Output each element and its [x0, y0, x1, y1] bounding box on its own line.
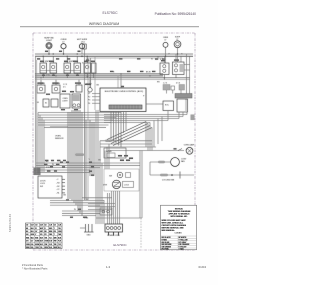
footer page number 1-3: [106, 265, 111, 269]
junction cluster: [34, 168, 41, 176]
svg-text:ELS79DC: ELS79DC: [102, 11, 118, 15]
right switch SW5: [173, 62, 185, 75]
relay module tags: [118, 155, 133, 161]
relay module box: [104, 148, 126, 158]
lower harness labels: [74, 199, 89, 220]
lock switch box: [38, 176, 62, 198]
svg-text:CODES: CODES: [174, 232, 182, 234]
svg-text:OR/B: OR/B: [26, 244, 30, 246]
surface element E2: [52, 83, 60, 93]
wire vertical x121 to EOC: [118, 74, 121, 88]
bus junction dots: [40, 53, 178, 78]
harness wires console to EOC: [38, 113, 121, 128]
svg-text:WITH SERIAL NO.: WITH SERIAL NO.: [170, 215, 188, 218]
oven lamp: [178, 143, 195, 154]
element row2 label specks: [38, 82, 92, 110]
chassis ground bracket: [80, 224, 94, 236]
svg-text:T: T: [54, 234, 55, 236]
svg-text:RED: RED: [49, 228, 52, 230]
svg-text:Y: Y: [54, 228, 55, 230]
element E3: [87, 84, 93, 92]
svg-text:W-B: W-B: [31, 237, 34, 239]
header title WIRING DIAGRAM: [89, 22, 119, 26]
svg-text:T TAN: T TAN: [179, 248, 185, 251]
bake relay K1: [37, 91, 75, 107]
right drop wires to lamp fan motor: [150, 117, 162, 151]
svg-text:GY: GY: [35, 231, 37, 233]
bottom model label ELS79DC: [113, 243, 127, 247]
svg-text:G-Y: G-Y: [31, 241, 34, 243]
svg-text:BLU: BLU: [31, 231, 34, 233]
bus N: [86, 57, 163, 59]
cooling fan motor wire: [150, 162, 194, 181]
svg-text:WIRING DIAGRAM: WIRING DIAGRAM: [89, 22, 119, 26]
svg-text:* Non-Illustrated Parts: * Non-Illustrated Parts: [22, 267, 48, 271]
terminal labels row2: [63, 84, 67, 89]
svg-text:CD: CD: [26, 225, 28, 227]
EOC top tick: [121, 86, 124, 87]
svg-text:R-B: R-B: [31, 247, 34, 249]
broil relay K2: [51, 99, 58, 107]
infinite switch SW3: [84, 61, 96, 73]
diagram dashed border: [33, 33, 195, 250]
indicator light LT1: [44, 38, 54, 54]
svg-text:# Functional Parts: # Functional Parts: [22, 263, 44, 267]
footer date code: [198, 265, 206, 269]
bus band 2 wire c: [35, 77, 190, 79]
switch SW5 border stubs: [184, 65, 190, 71]
bottom center verticals: [96, 110, 142, 224]
node labels near buses: [82, 59, 162, 87]
indicator light LT2: [61, 39, 67, 54]
header publication number: [155, 12, 197, 16]
EOC pin labels P1-P4 outside left: [88, 93, 90, 105]
svg-text:W/B: W/B: [26, 237, 29, 239]
splice connector on bundle: [75, 153, 91, 161]
wire dashed drop to border: [140, 218, 142, 248]
svg-text:CD: CD: [35, 225, 37, 227]
infinite switch SW1: [40, 61, 57, 77]
svg-text:PK PINK: PK PINK: [162, 249, 170, 251]
svg-text:ORN: ORN: [58, 231, 61, 233]
rear element light LT5: [174, 36, 181, 62]
mid horizontal wires: [100, 141, 184, 151]
svg-text:BRN: BRN: [49, 231, 52, 233]
bottom junction wires: [82, 198, 142, 218]
harness bundle left verticals: [38, 113, 44, 173]
surface element E1: [37, 83, 45, 93]
wire color code table: [26, 223, 63, 249]
relay module left label: [99, 160, 102, 162]
svg-text:YEL: YEL: [58, 228, 61, 230]
EOC electronic oven control board: [100, 88, 146, 112]
lock switch pin labels: [56, 179, 67, 197]
console junction labels: [34, 161, 54, 172]
oven light assembly: [60, 94, 70, 108]
limiter S1: [76, 85, 82, 92]
right feeder verticals: [187, 54, 190, 94]
switch row1 label specks: [40, 59, 179, 62]
infinite switch SW2: [64, 61, 81, 73]
rear indicator light LT4: [163, 37, 169, 63]
wire vertical x95: [94, 57, 96, 110]
oven sensor label: [50, 127, 68, 141]
lock feed verticals: [105, 144, 109, 169]
latch board: [163, 101, 174, 111]
under-bus wire tag specks: [37, 51, 165, 76]
diagonal crossover wires: [107, 122, 152, 146]
svg-text:01/04: 01/04: [198, 265, 206, 269]
svg-text:1-3: 1-3: [106, 265, 111, 269]
lock switch pin ticks: [62, 179, 65, 193]
connector bar J2: [175, 94, 192, 99]
door switch assembly: [72, 94, 81, 108]
header model number ELS79DC: [102, 11, 118, 15]
svg-text:WHT: WHT: [40, 228, 43, 230]
connector leader wires: [146, 90, 181, 104]
svg-text:Publication No: 5995426140: Publication No: 5995426140: [155, 12, 197, 16]
right section labels row: [157, 81, 180, 84]
bus band 2 wire d: [35, 79, 190, 81]
svg-text:GN: GN: [26, 234, 28, 236]
relay board K3: [177, 99, 188, 112]
wire vertical x88 long: [87, 58, 89, 200]
svg-text:5995426140: 5995426140: [8, 213, 12, 232]
door lock motor M1: [103, 180, 133, 188]
oven lamp lead tag: [174, 148, 177, 149]
svg-text:W/GY: W/GY: [45, 247, 49, 249]
console lower wires: [36, 163, 140, 172]
door lock switch DL1: [104, 169, 139, 191]
harness tag specks mid-left: [44, 160, 94, 218]
svg-text:Y-B: Y-B: [40, 247, 42, 249]
svg-text:V: V: [35, 234, 36, 236]
header rule: [20, 26, 199, 28]
svg-text:G/Y: G/Y: [26, 241, 29, 243]
splice on wire: [105, 140, 123, 143]
svg-text:MINI MANUAL.: MINI MANUAL.: [162, 229, 176, 232]
notes box: [161, 205, 198, 250]
rotated publication number on left margin: [8, 213, 12, 232]
fuse F1: [82, 42, 86, 49]
wire vertical x36: [36, 57, 37, 174]
right switch drop wires: [164, 54, 181, 63]
harness bundle right verticals: [146, 122, 152, 151]
right section node labels: [157, 54, 183, 59]
svg-text:CD: CD: [45, 225, 47, 227]
bus band fuzz lines: [35, 55, 193, 77]
lower harness wires: [104, 115, 187, 123]
right switch SW4: [160, 63, 169, 75]
border connector mark: [191, 115, 195, 121]
harness bundle center verticals: [68, 110, 94, 216]
convection fan motor: [150, 158, 187, 167]
switch row stub wires: [41, 56, 176, 87]
bus band 2 wire b: [35, 75, 163, 77]
svg-text:ELS79DC: ELS79DC: [113, 243, 127, 247]
EOC pin stubs: [92, 94, 100, 104]
lower left harness horizontals: [50, 201, 104, 216]
wire vertical x90: [90, 58, 92, 88]
svg-text:GRN: GRN: [31, 234, 34, 236]
terminal block TB1: [105, 224, 123, 237]
svg-text:O-B: O-B: [31, 244, 34, 246]
indicator light LT3: [77, 39, 88, 54]
EOC output ribbon down: [111, 112, 126, 148]
relay board connector J1: [163, 85, 185, 91]
wire from fuse down: [84, 49, 86, 112]
relay board drop wires: [168, 111, 187, 121]
grounding block: [100, 208, 112, 215]
svg-text:CD: CD: [54, 225, 56, 227]
bus band 2 wire a: [35, 73, 163, 75]
svg-text:GRY: GRY: [40, 231, 43, 233]
footer functional parts note: [22, 263, 48, 271]
bus L2: [35, 55, 193, 57]
bus L1: [35, 53, 193, 55]
svg-text:BU: BU: [26, 231, 28, 233]
